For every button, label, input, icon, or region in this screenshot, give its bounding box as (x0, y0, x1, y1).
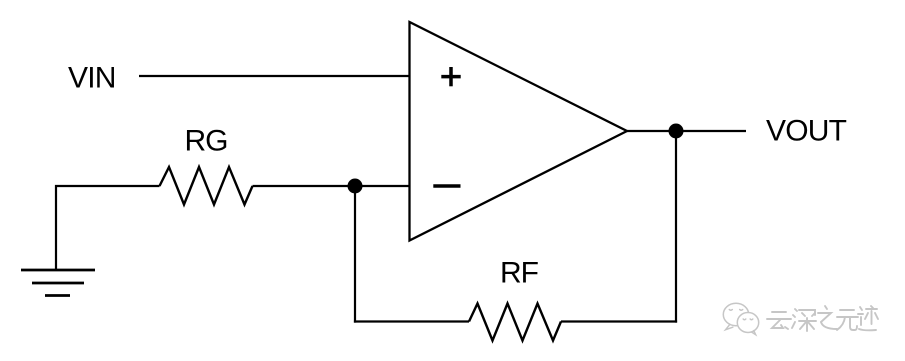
svg-text:RF: RF (500, 257, 539, 290)
resistor RF (469, 304, 561, 341)
之 (825, 306, 827, 309)
wire feedback bottom left segment (354, 320, 469, 322)
op-amp + pin symbol (441, 67, 460, 86)
op-amp - pin symbol (433, 184, 460, 188)
wire op-amp output to VOUT (627, 130, 746, 132)
ground (21, 270, 95, 296)
wire ground corner to resistor RG (56, 186, 160, 270)
watermark wechat icon (723, 303, 758, 334)
svg-text:VIN: VIN (68, 62, 116, 95)
svg-text:RG: RG (185, 125, 228, 158)
云 (772, 311, 786, 313)
svg-text:VOUT: VOUT (766, 114, 847, 147)
迹 (860, 307, 862, 310)
op-amp U1 (410, 22, 628, 241)
wire RG to op-amp - input (253, 185, 411, 187)
watermark text 云深之无迹 (767, 306, 878, 331)
wire node A down to feedback (354, 186, 356, 323)
node A junction dot (inverting input) (348, 179, 363, 194)
wire RF to output vertical (561, 320, 677, 322)
无 (840, 309, 854, 311)
resistor RG (160, 167, 253, 205)
深 (795, 309, 797, 311)
wire VIN to op-amp + input (139, 75, 410, 77)
node B junction dot (output) (669, 124, 684, 139)
wire output vertical up to output node (675, 131, 677, 323)
